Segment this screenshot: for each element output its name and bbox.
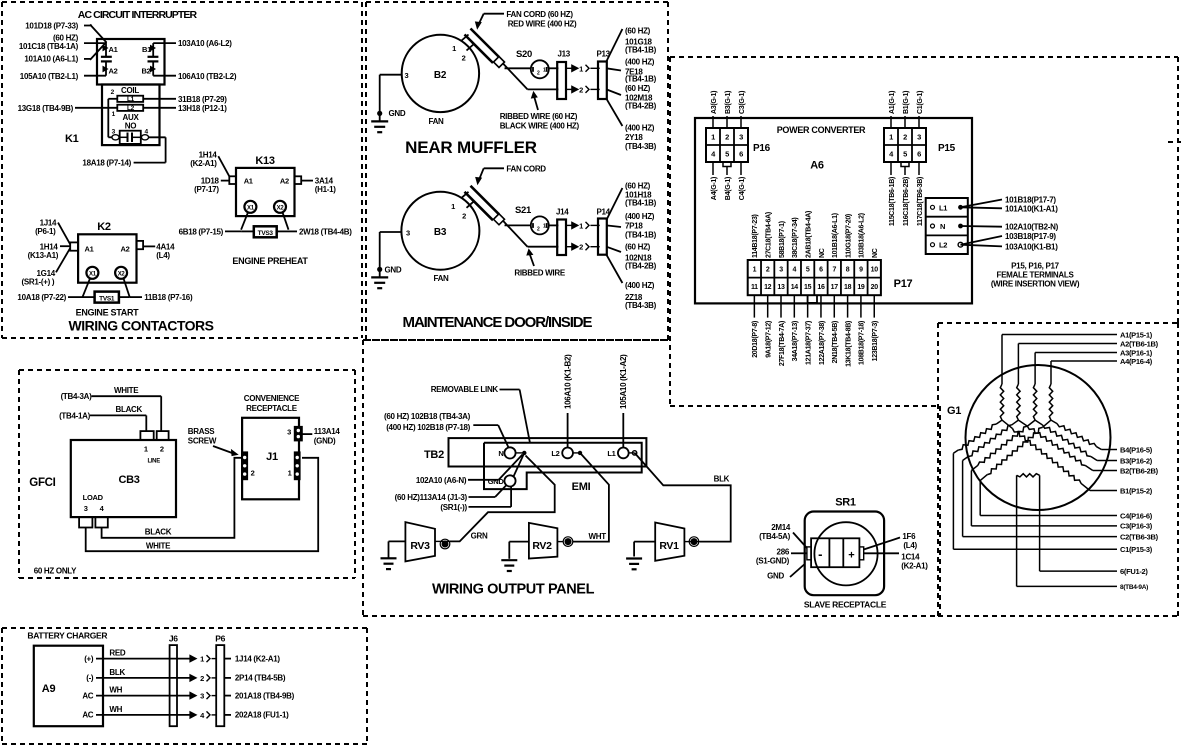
caption SLAVE RECEPTACLE [804,600,887,610]
wire: K1 coil pin2 down to aux pin 3 [108,99,117,138]
svg-text:2: 2 [251,469,255,478]
svg-text:(TB4-5A): (TB4-5A) [759,532,791,541]
wire: B3 pin3 to ground [377,232,402,277]
svg-text:+: + [848,550,854,562]
svg-text:AC CIRCUIT INTERRUPTER: AC CIRCUIT INTERRUPTER [78,9,198,21]
svg-text:2M14: 2M14 [771,523,791,532]
svg-text:-: - [818,547,822,562]
svg-text:TVS3: TVS3 [258,230,274,237]
labels A3(G-1) B3(G-1) C3(G-1) [711,91,746,114]
label (400 HZ) 7E18 (TB4-1B) [625,57,657,83]
svg-text:L2: L2 [127,105,135,112]
K13 terminal X2 circle [274,201,286,213]
J14-P14 row2 arrow and pin 2 [565,243,600,252]
svg-text:(+): (+) [84,654,94,663]
svg-text:7P18: 7P18 [625,221,643,230]
svg-text:FAN: FAN [428,117,444,126]
arrow from fan cord label to cord [476,14,505,29]
svg-text:J13: J13 [558,50,571,59]
svg-text:101B18(P17-7): 101B18(P17-7) [1005,196,1056,205]
wire: P14 row1 to 7P18 labels [606,225,621,227]
label 101B18(P17-7) [1005,196,1056,205]
label 105A10 (TB2-L1) [20,72,79,81]
RV2 ground [501,542,529,571]
K1 aux contact box with contact symbol [112,129,149,144]
label 105A10 (K1-A2) rotated [619,354,628,409]
svg-text:31B18 (P7-29): 31B18 (P7-29) [178,95,227,104]
A9 terminal AC row wire [82,686,190,701]
wire: ribbed wire to J13 pin2 [503,64,558,90]
svg-text:(60 HZ)113A14 (J1-3): (60 HZ)113A14 (J1-3) [395,493,468,502]
svg-text:FAN CORD: FAN CORD [506,165,546,174]
label (TB4-3A) with WHITE wire [61,386,162,431]
ground symbol below B3 [371,266,402,289]
svg-text:B1(G-1): B1(G-1) [903,91,910,114]
K13 left pin tab [229,176,236,184]
svg-text:A1: A1 [244,176,253,185]
svg-text:B3(P16-2): B3(P16-2) [1120,456,1153,465]
svg-text:103A10 (A6-L2): 103A10 (A6-L2) [178,39,232,48]
svg-text:GND: GND [767,572,784,581]
svg-text:FAN: FAN [433,274,449,283]
svg-text:105A10 (TB2-L1): 105A10 (TB2-L1) [20,72,79,81]
J13-P13 row1 arrow and pin 1 [565,64,600,73]
svg-text:(-): (-) [86,674,94,683]
label GRN [471,532,488,541]
svg-text:14: 14 [791,284,799,291]
P17 lower rotated wire labels [752,321,879,367]
svg-text:X2: X2 [277,206,285,212]
svg-text:(60 HZ): (60 HZ) [625,243,651,252]
svg-text:B2: B2 [434,70,447,81]
J1 pin 3 box with terminals [287,427,302,441]
wire: fan cord to switch S20 [505,67,531,69]
dashed border: near muffler / maintenance door section box [366,2,668,340]
svg-text:1: 1 [200,655,204,664]
svg-text:13G18 (TB4-9B): 13G18 (TB4-9B) [18,104,74,113]
title CONVENIENCE RECEPTACLE [244,394,300,413]
svg-text:TVS1: TVS1 [99,295,115,302]
label 1F6 (L4) [902,532,917,550]
svg-text:(400 HZ): (400 HZ) [625,212,655,221]
svg-text:C1(P15-3): C1(P15-3) [1120,545,1153,554]
connector P6 bar [215,634,225,727]
SR1 receptacle circle [814,522,877,585]
svg-text:106A10 (TB2-L2): 106A10 (TB2-L2) [178,72,237,81]
svg-text:N: N [940,222,945,231]
label C1(P15-3) [1120,545,1153,554]
svg-text:SCREW: SCREW [188,437,217,446]
K13 A1 A2 labels [244,176,289,185]
G1 diagonal coil to C4(P16-6) [980,420,1117,515]
svg-text:(L4): (L4) [156,251,170,260]
svg-text:1F6: 1F6 [902,532,916,541]
wire: 102B18 labels to N terminal [473,425,508,447]
connector P17 (2x10) [748,260,881,295]
SR1 battery-style contact block [811,538,859,567]
label 202A18 (FU1-1) [235,711,289,720]
wire: L1 to 101A10(K1-A1) [961,207,1003,208]
wire: P14 bottom to 2Z18 labels [606,255,622,283]
wire: 105A10 (K1-A2) down to L1 [622,413,624,448]
svg-text:110G18(P7-20): 110G18(P7-20) [845,214,852,258]
CB3 line pin 1 [140,431,153,440]
caption P15 P16 P17 female terminals [991,262,1080,289]
svg-text:WH: WH [109,686,122,695]
svg-text:L1: L1 [127,96,135,103]
label 1H14 (K2-A1) [190,151,217,169]
svg-text:38C18(P7-34): 38C18(P7-34) [792,218,799,258]
svg-text:201A18 (TB4-9B): 201A18 (TB4-9B) [235,691,295,700]
J6-P6 row 4 arrow [190,711,216,720]
suppressor TVS1 box [95,292,119,303]
svg-text:BATTERY CHARGER: BATTERY CHARGER [27,631,107,641]
label 102A10(TB2-N) [1005,223,1059,232]
J6-P6 row 3 arrow [190,692,216,701]
svg-text:4: 4 [793,267,797,274]
svg-text:19: 19 [857,284,865,291]
svg-text:BRASS: BRASS [188,427,215,436]
svg-text:A2(TB6-1B): A2(TB6-1B) [1120,339,1159,348]
label 101D18 (P7-33) [25,22,78,31]
svg-text:(TB4-3A): (TB4-3A) [61,392,93,401]
svg-text:60 HZ ONLY: 60 HZ ONLY [34,567,77,576]
svg-text:BLACK: BLACK [116,405,143,414]
svg-text:(TB4-1B): (TB4-1B) [625,45,657,54]
G1 diagonal coil to C2(TB6-3B) [963,420,1117,536]
svg-text:RV2: RV2 [532,540,552,552]
svg-text:18: 18 [844,284,852,291]
svg-text:B1(P15-2): B1(P15-2) [1120,486,1153,495]
svg-text:WHITE: WHITE [114,386,139,395]
label (SR1(-)) [440,503,467,512]
pointer: GND to SR1 shell [790,564,805,577]
K1 coil pin 1 digit [112,111,116,118]
svg-text:6: 6 [819,267,823,274]
wire: BLACK from CB3 load4 to J1 left pins [102,458,243,538]
svg-text:6: 6 [917,149,921,158]
wire: K1 B1 to label 103A10 (A6-L2) [153,42,176,44]
svg-text:NO: NO [125,122,136,131]
wire: P6 row 2 to label [224,677,231,679]
svg-text:7: 7 [832,267,836,274]
fan cord band B2 [461,29,505,68]
svg-text:C2(TB6-3B): C2(TB6-3B) [1120,532,1159,541]
RV1 ground [626,542,655,570]
label 6(FU1-2) [1120,567,1148,576]
RV3 ground [381,541,406,569]
wire: 105A10 to K1 A2 [84,75,106,77]
K2 A1 A2 labels [85,244,130,253]
wire: ribbed wire to J14 pin2 [503,221,558,247]
label 101A10 (A6-L1) [24,55,78,64]
svg-text:RIBBED WIRE: RIBBED WIRE [514,269,565,278]
label 103A10(K1-B1) [1005,242,1058,251]
label (60 HZ) 102M18 (TB4-2B) [625,84,657,110]
svg-text:121A18(P7-37): 121A18(P7-37) [805,321,812,365]
svg-text:G1: G1 [947,405,961,417]
svg-text:TB2: TB2 [424,449,444,461]
wire: 113A14 to GND terminal [469,485,507,497]
wire: 101C18 to K1 A1 [84,42,106,44]
svg-text:B2(TB6-2B): B2(TB6-2B) [1120,466,1159,475]
dashed border: power converter section box [670,57,1181,406]
svg-text:LINE: LINE [147,458,160,464]
wire: K2 X2 to 11B18 and TVS1 [119,278,142,297]
wire: S20 to J13 pin1 [549,67,559,69]
varistor RV3 [405,522,449,561]
svg-text:B4(G-1): B4(G-1) [725,177,732,200]
svg-text:2: 2 [200,674,204,683]
svg-text:6(FU1-2): 6(FU1-2) [1120,567,1148,576]
svg-text:101B18(A6-L1): 101B18(A6-L1) [832,213,839,258]
EMI filter box outline [484,443,642,489]
title NEAR MUFFLER [405,138,537,157]
P16 wires to upper labels A3 B3 C3 [713,116,741,128]
svg-text:10: 10 [871,267,879,274]
fan motor B3 circle [401,192,479,283]
svg-text:6: 6 [739,149,743,158]
label 18A18 (P7-14) [82,159,131,168]
wire: K13 X2 to 2W18 and TVS3 [277,212,297,231]
svg-text:GFCI: GFCI [29,477,55,489]
svg-text:16: 16 [817,284,825,291]
terminal block L1 N L2 inside A6 [926,198,968,254]
svg-text:116C18(TB6-2B): 116C18(TB6-2B) [903,177,910,226]
svg-text:106A10 (K1-B2): 106A10 (K1-B2) [563,354,572,409]
label 1C14 (K2-A1) [901,553,928,571]
svg-text:10A18 (P7-22): 10A18 (P7-22) [17,293,66,302]
svg-text:2Y18: 2Y18 [625,133,643,142]
pointer: 1F6 to SR1 plus tab [864,538,900,550]
pointer: removable link label to link [500,390,531,444]
label 103B18(P17-9) [1005,232,1056,241]
svg-text:C3(G-1): C3(G-1) [739,91,746,114]
G1 excitation winding rectangle [1017,474,1117,587]
A9 terminal (+) row wire [84,649,190,664]
caption ENGINE START [76,308,140,318]
wire: K13 X1 to 6B18 and TVS3 [225,212,254,231]
title WIRING OUTPUT PANEL [432,582,595,598]
contactor K1 coil/aux box [102,85,160,146]
svg-text:1J14 (K2-A1): 1J14 (K2-A1) [235,654,281,663]
svg-text:8: 8 [846,267,850,274]
wire: 101D18 (P7-33) to K1 A1 (diagonal) [84,25,107,43]
G1 diagonal coil to B1(P15-2) [1002,420,1117,490]
svg-text:(P7-17): (P7-17) [194,185,219,194]
terminal board TB2 outer box [449,438,647,466]
G1 winding lead A4(P16-4) wire [1051,361,1117,384]
designator A6 [810,160,824,172]
title MAINTENANCE DOOR/INSIDE [403,314,593,331]
wire: K1 B2 to label 106A10 (TB2-L2) [153,75,176,77]
svg-text:(TB4-1B): (TB4-1B) [625,75,657,84]
dashed border: wiring output panel section box [363,340,940,616]
svg-text:108B18(P7-18): 108B18(P7-18) [859,321,866,365]
switch S21 circle [515,205,549,234]
pointer: 2M14 to SR1 minus tab [793,533,807,549]
svg-text:58B18(P7-1): 58B18(P7-1) [779,221,786,258]
J14-P14 row1 arrow and pin 1 [565,221,600,230]
designator P17 [894,278,913,290]
SR1 right tab [859,547,863,560]
J1 right pin box [288,452,300,479]
K1 AUX NO label [123,113,140,131]
wire: 1H14 diagonal to K13 left pin [218,156,229,176]
svg-text:117C18(TB6-3B): 117C18(TB6-3B) [917,177,924,226]
J6-P6 row 1 arrow [190,655,216,664]
svg-text:105A10 (K1-A2): 105A10 (K1-A2) [619,354,628,409]
switch S20 circle [516,49,549,78]
svg-text:SR1: SR1 [835,497,856,509]
designator SR1 [835,497,856,509]
P15 wires to lower labels 115C18 116C18 117C18 [891,162,919,175]
wire: L2 to 103A10(K1-B1) [961,245,1003,247]
svg-text:103A10(K1-B1): 103A10(K1-B1) [1005,242,1058,251]
svg-text:K13: K13 [255,155,274,167]
svg-text:2: 2 [579,243,583,252]
svg-text:15: 15 [804,284,812,291]
svg-text:A3(G-1): A3(G-1) [711,91,718,114]
label 102A10 (A6-N) [416,476,467,485]
svg-text:BLACK: BLACK [145,528,172,537]
wire: K2 right pin to 4A14 [143,245,155,247]
wire: J1 pin3 to 113A14 (GND) [302,433,312,435]
designator K13 [255,155,274,167]
label C2(TB6-3B) [1120,532,1159,541]
label (60 HZ) 101C18 (TB4-1A) [19,34,79,51]
P17 pin15-16 NC link [808,295,817,303]
svg-text:5: 5 [903,149,907,158]
svg-text:A9: A9 [42,683,56,695]
svg-text:(60 HZ): (60 HZ) [625,84,651,93]
CB3 pin digits and LINE label [144,444,164,464]
svg-text:GND: GND [488,477,505,486]
svg-text:C4(G-1): C4(G-1) [739,177,746,200]
G1 winding lead A1(P15-1) wire [1002,335,1117,385]
svg-text:P15, P16, P17: P15, P16, P17 [1011,262,1060,271]
label FAN CORD (60 HZ) / RED WIRE (400 HZ) [506,10,577,28]
svg-text:FAN CORD (60 HZ): FAN CORD (60 HZ) [506,10,573,19]
label 3A14 (H1-1) [315,176,337,194]
svg-text:5: 5 [806,267,810,274]
svg-text:A4(G-1): A4(G-1) [711,177,718,200]
label GND (SR1) [767,572,784,581]
wire: 13G18 to K1 coil L2 and out to 13H18 [75,107,176,109]
svg-text:A6: A6 [810,160,824,172]
svg-text:20D18(P7-8): 20D18(P7-8) [752,321,759,358]
svg-text:2: 2 [903,132,907,141]
wire: P6 row 4 to label [224,714,231,716]
label BLK [714,474,730,483]
svg-text:RECEPTACLE: RECEPTACLE [246,404,298,413]
label 8(TB4-9A) [1120,584,1148,591]
svg-text:3: 3 [84,504,88,513]
wire: S21 to J14 pin1 [549,224,559,226]
svg-text:(TB4-3B): (TB4-3B) [625,301,657,310]
wire: 1G14 diagonal to K2 pin [56,248,70,272]
svg-text:A1(P15-1): A1(P15-1) [1120,330,1153,339]
B3 pin digits [406,202,466,238]
svg-text:27F18(TB4-7A): 27F18(TB4-7A) [779,321,786,366]
connector J14 bar [556,208,569,255]
svg-text:A2: A2 [109,67,118,76]
wire: N to 102A10(TB2-N) [961,225,1003,228]
svg-text:11B18 (P7-16): 11B18 (P7-16) [144,293,193,302]
svg-text:X1: X1 [247,206,255,212]
svg-text:POWER CONVERTER: POWER CONVERTER [777,125,866,135]
labels 115C18(TB6-1B) 116C18(TB6-2B) 117C18(TB6-3B) [889,177,924,226]
wire: 1D18 to K13 left pin [221,180,230,182]
svg-text:WHT: WHT [589,532,607,541]
svg-text:(60 HZ): (60 HZ) [625,181,651,190]
J1 left pin box (brass screw) [242,452,255,479]
svg-text:CB3: CB3 [118,474,139,486]
designator K2 [97,221,111,233]
svg-text:BLACK WIRE (400 HZ): BLACK WIRE (400 HZ) [500,121,580,130]
label 1J14 (K2-A1) [235,654,281,663]
label 106A10 (K1-B2) rotated [563,354,572,409]
wire: K2 X1 to 10A18 and TVS1 [68,278,95,297]
svg-text:2N18(TB4-5B): 2N18(TB4-5B) [832,321,839,363]
svg-text:SLAVE RECEPTACLE: SLAVE RECEPTACLE [804,600,887,610]
svg-text:A2: A2 [121,244,130,253]
svg-text:(60 HZ) 102B18 (TB4-3A): (60 HZ) 102B18 (TB4-3A) [384,412,471,421]
label 4A14 (L4) [156,242,175,260]
svg-text:103B18(P17-9): 103B18(P17-9) [1005,232,1056,241]
varistor RV1 [655,523,700,561]
connector P15 (2x3) [884,128,956,167]
svg-text:COIL: COIL [121,86,139,95]
power converter A6 box [695,118,972,303]
P16 wires to lower labels A4 B4 C4 [713,162,741,175]
K2 right pin tab [137,241,144,249]
K1 COIL label [121,86,139,95]
svg-text:FEMALE TERMINALS: FEMALE TERMINALS [997,271,1075,280]
wire: K1 coil L1 to label 31B18 (P7-29) [143,98,176,100]
svg-text:K2: K2 [97,221,111,233]
K1 aux terminal ovals [112,135,149,140]
svg-text:(TB4-3B): (TB4-3B) [625,142,657,151]
label (60 HZ) 102N18 (TB4-2B) [625,243,657,271]
wire: 106A10 (K1-B2) down to L2 [567,413,569,448]
svg-text:2: 2 [160,444,164,453]
label 11B18 (P7-16) [144,293,193,302]
svg-text:3: 3 [739,132,743,141]
svg-text:1: 1 [144,444,148,453]
svg-text:P17: P17 [894,278,913,290]
svg-text:A4(P16-4): A4(P16-4) [1120,357,1153,366]
svg-text:GND: GND [389,109,406,118]
connector P13 bar [597,50,611,100]
label B4(P16-5) [1120,445,1153,454]
svg-text:P6: P6 [215,634,225,644]
A9 terminal AC row wire [82,705,190,720]
svg-text:18A18 (P7-14): 18A18 (P7-14) [82,159,131,168]
CB3 LOAD label and pin digits [83,493,105,513]
wire: L1 to 101B18(P17-7) [961,200,1003,208]
title POWER CONVERTER [777,125,866,135]
svg-text:2: 2 [462,212,466,221]
svg-text:WIRING OUTPUT PANEL: WIRING OUTPUT PANEL [432,582,595,598]
wire: L2 to RV2 (WHT) [573,453,609,542]
label B2(TB6-2B) [1120,466,1159,475]
svg-text:B2: B2 [142,67,151,76]
svg-text:(K2-A1): (K2-A1) [901,562,928,571]
svg-text:27C18(TB4-6A): 27C18(TB4-6A) [765,212,772,258]
svg-text:A2: A2 [280,176,289,185]
svg-text:C4(P16-6): C4(P16-6) [1120,511,1153,520]
